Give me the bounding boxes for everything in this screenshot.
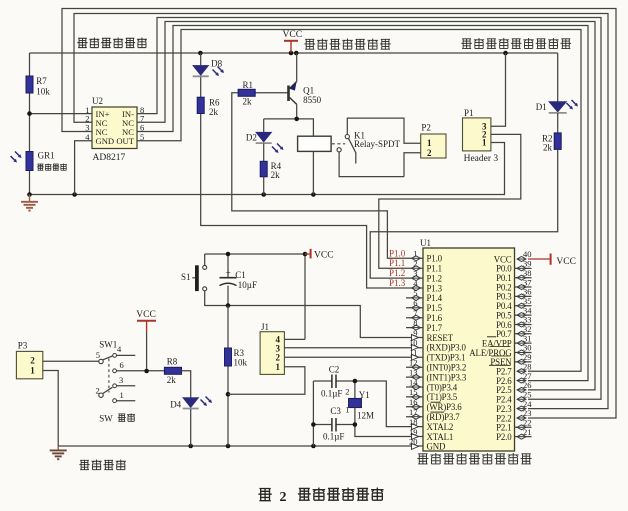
svg-text:VCC: VCC xyxy=(556,257,576,267)
svg-text:1: 1 xyxy=(120,390,124,400)
labels J1 pin numbers xyxy=(276,335,281,372)
junction VCC rail / D8 anode xyxy=(198,51,203,56)
svg-text:(TXD)P3.1: (TXD)P3.1 xyxy=(427,353,466,363)
svg-text:XTAL1: XTAL1 xyxy=(427,432,454,442)
wire K1 throw to P2 pin2 xyxy=(339,152,421,177)
transistor Q1 8550 xyxy=(289,82,297,105)
svg-text:3: 3 xyxy=(413,268,417,278)
led D4 xyxy=(183,397,212,409)
wire D1 feed from VCC rail xyxy=(557,53,559,102)
svg-text:1: 1 xyxy=(276,362,281,372)
wire P1 pin3 to VCC rail xyxy=(491,53,506,126)
svg-text:19: 19 xyxy=(409,427,418,437)
label D1 xyxy=(536,102,547,112)
svg-text:1: 1 xyxy=(413,249,417,259)
svg-text:P1.2: P1.2 xyxy=(427,273,442,283)
caption 图 2 整个系统电路 xyxy=(258,488,383,506)
svg-text:R1: R1 xyxy=(243,80,254,90)
wire SW1 throw 6 to R8 xyxy=(120,332,164,371)
label R2 2k xyxy=(542,134,553,153)
wire VCC node (S1/C1 top rail) xyxy=(205,254,305,339)
svg-text:34: 34 xyxy=(523,305,532,315)
svg-text:2: 2 xyxy=(280,490,287,505)
svg-text:28: 28 xyxy=(523,361,532,371)
power symbol VCC (power module) xyxy=(136,310,156,332)
label SW1 xyxy=(99,340,117,350)
mcu U1 body xyxy=(423,248,515,451)
svg-text:P3: P3 xyxy=(18,340,28,350)
wire D4 cathode to ground xyxy=(190,409,192,446)
wire net P2.7 (U2 pin5 OUT / bus) xyxy=(137,30,581,372)
wire D1 to R2 xyxy=(557,113,559,133)
svg-text:13: 13 xyxy=(409,367,418,377)
wire net P2.5 (U2 pin7 / bus) xyxy=(137,22,595,390)
junction VCC rail / Q1 emitter xyxy=(294,51,299,56)
label R4 2k xyxy=(271,161,282,180)
label D2 xyxy=(246,133,257,143)
relay K1 coil xyxy=(298,136,332,151)
junction Y1 bottom xyxy=(353,422,358,427)
svg-text:P1.3: P1.3 xyxy=(427,283,443,293)
label module 单片机最小系统电路 xyxy=(417,453,531,464)
wire P1 pin2 to P1.1 (net P1.1) xyxy=(379,134,521,268)
wire Q1 emitter to VCC xyxy=(296,53,298,82)
svg-text:32: 32 xyxy=(523,324,532,334)
svg-text:SW: SW xyxy=(99,413,113,423)
svg-text:27: 27 xyxy=(523,371,532,381)
svg-text:R6: R6 xyxy=(209,98,220,108)
svg-text:P1.5: P1.5 xyxy=(427,303,443,313)
labels U1 left pin numbers xyxy=(409,249,418,447)
junction VCC stem / R8 wire xyxy=(144,369,149,374)
svg-text:15: 15 xyxy=(409,387,418,397)
wire R4 to ground xyxy=(263,177,265,195)
svg-text:Header 3: Header 3 xyxy=(464,154,499,164)
svg-text:26: 26 xyxy=(523,380,532,390)
label R6 2k xyxy=(209,98,220,118)
svg-text:P1.0: P1.0 xyxy=(427,254,443,264)
svg-text:R7: R7 xyxy=(36,76,47,86)
svg-text:S1: S1 xyxy=(181,272,191,282)
label P1 xyxy=(464,108,474,118)
wire net P2.4 (U2 pin8 / bus) xyxy=(137,18,601,400)
svg-text:3: 3 xyxy=(119,375,123,385)
svg-text:10µF: 10µF xyxy=(238,280,257,290)
labels P3 pin numbers xyxy=(30,355,35,375)
junction ground rail / GR1 xyxy=(27,192,32,197)
junction VCC rail / P1 header pin 3 xyxy=(503,51,508,56)
wire R2 to P1.2 (net P1.2) xyxy=(370,149,558,278)
svg-text:10k: 10k xyxy=(234,358,248,368)
svg-text:6: 6 xyxy=(120,360,124,370)
resistor R7 xyxy=(26,76,33,93)
svg-text:23: 23 xyxy=(523,408,532,418)
svg-text:2: 2 xyxy=(30,355,35,365)
svg-text:16: 16 xyxy=(409,397,418,407)
label S1 xyxy=(181,272,191,282)
svg-text:2k: 2k xyxy=(167,375,177,385)
photoresistor GR1 xyxy=(11,152,34,171)
svg-text:38: 38 xyxy=(523,268,532,278)
svg-text:P1.2: P1.2 xyxy=(389,268,405,278)
switch S1 pushbutton xyxy=(192,265,207,291)
junction VCC tick xyxy=(303,252,308,257)
svg-text:+: + xyxy=(226,268,231,278)
junction bottom rail / D4 xyxy=(188,444,193,449)
label GR1 光敏电阻 xyxy=(37,164,67,171)
labels U2 pin names xyxy=(96,109,135,146)
svg-text:D4: D4 xyxy=(170,400,181,410)
junction C1 top xyxy=(226,252,231,257)
svg-text:10: 10 xyxy=(409,338,418,348)
svg-text:(RXD)P3.0: (RXD)P3.0 xyxy=(427,343,467,353)
labels U1 right pin numbers xyxy=(523,249,532,437)
svg-text:P1.3: P1.3 xyxy=(389,278,406,288)
svg-text:2k: 2k xyxy=(271,170,281,180)
op-amp U2 AD8217 body xyxy=(92,107,137,149)
label D4 xyxy=(170,400,181,410)
led D8 xyxy=(193,65,224,76)
wire D8/R6 to P1.3 (net P1.3) xyxy=(201,53,423,288)
label C2 0.1uF xyxy=(321,365,342,399)
svg-text:2k: 2k xyxy=(543,143,553,153)
label R8 2k xyxy=(167,357,178,385)
svg-text:8: 8 xyxy=(413,318,417,328)
wire XTAL2 net (C2/Y1 top) xyxy=(313,381,423,427)
svg-text:37: 37 xyxy=(523,277,532,287)
connector P2 xyxy=(421,134,446,158)
resistor R6 xyxy=(197,97,204,113)
label AD8217 xyxy=(93,153,126,163)
connector P3 xyxy=(16,351,42,378)
wire RESET net (S1/C1 bottom to MCU pin9) xyxy=(205,286,423,338)
svg-text:2k: 2k xyxy=(243,97,253,107)
svg-text:(WR)P3.6: (WR)P3.6 xyxy=(427,402,463,412)
svg-text:35: 35 xyxy=(523,296,532,306)
ground rail (photocell/relay modules) xyxy=(30,143,505,195)
wire relay coil to ground xyxy=(312,151,314,194)
svg-text:P1.0: P1.0 xyxy=(389,248,406,258)
svg-text:2: 2 xyxy=(413,259,417,269)
wire MCU pin40 to VCC xyxy=(528,258,550,260)
label GR1 xyxy=(38,151,55,161)
labels U2 pin numbers xyxy=(85,105,144,142)
svg-text:5: 5 xyxy=(140,132,144,142)
svg-text:2: 2 xyxy=(427,148,432,158)
label P2 xyxy=(421,122,431,132)
svg-text:P1.7: P1.7 xyxy=(427,323,443,333)
svg-text:VCC: VCC xyxy=(314,250,334,260)
label module 光敏电路模块 xyxy=(77,38,147,48)
junction C3 left xyxy=(311,422,316,427)
junction bottom rail / C2C3 xyxy=(311,444,316,449)
svg-text:33: 33 xyxy=(523,315,532,325)
svg-text:SW1: SW1 xyxy=(99,340,117,350)
svg-text:(T1)P3.5: (T1)P3.5 xyxy=(427,392,458,402)
led D1 xyxy=(549,100,578,113)
svg-text:U1: U1 xyxy=(420,238,431,248)
svg-text:1: 1 xyxy=(482,138,487,148)
junction VCC rail / VCC symbol xyxy=(289,51,294,56)
svg-text:8550: 8550 xyxy=(303,95,322,105)
label J1 xyxy=(261,322,269,332)
resistor R2 xyxy=(554,133,561,150)
wire J1 pin1 to R3 node xyxy=(228,367,305,394)
svg-text:14: 14 xyxy=(409,377,418,387)
junction J1 pin1 / R3 xyxy=(226,392,231,397)
resistor R8 xyxy=(164,367,181,374)
mcu U1 right pin stubs and arrows xyxy=(515,257,532,440)
ground rail (bottom / MCU GND) xyxy=(58,445,423,447)
svg-text:11: 11 xyxy=(409,348,417,358)
wire P3 pin2 to SW1 pole xyxy=(43,360,99,362)
svg-text:D1: D1 xyxy=(536,102,547,112)
svg-text:40: 40 xyxy=(523,249,532,259)
svg-text:Q1: Q1 xyxy=(303,86,314,96)
power ground symbol (power module) xyxy=(50,446,67,459)
svg-text:D8: D8 xyxy=(211,59,222,69)
power symbol VCC (MCU) xyxy=(551,254,576,268)
svg-text:C1: C1 xyxy=(235,270,246,280)
svg-text:31: 31 xyxy=(523,333,532,343)
svg-text:P2: P2 xyxy=(421,122,431,132)
svg-text:C3: C3 xyxy=(330,406,341,416)
svg-text:U2: U2 xyxy=(92,96,103,106)
wire VCC rail (top, photocell + relay + PIR modules) xyxy=(30,52,558,54)
labels SW1 pin numbers xyxy=(96,344,124,400)
svg-text:7: 7 xyxy=(413,308,417,318)
svg-text:2k: 2k xyxy=(209,107,219,117)
capacitor C3 xyxy=(332,418,336,432)
label R7 10k xyxy=(36,76,50,97)
label R1 2k xyxy=(243,80,254,107)
svg-text:39: 39 xyxy=(523,259,532,269)
svg-text:18: 18 xyxy=(409,417,418,427)
label module 电源电路 xyxy=(79,460,126,470)
power ground symbol (photocell module) xyxy=(21,195,38,211)
svg-text:P1.4: P1.4 xyxy=(427,293,443,303)
capacitor C1 xyxy=(220,268,237,285)
capacitor C2 xyxy=(332,375,336,389)
svg-text:P1.6: P1.6 xyxy=(427,313,443,323)
label SW 灰色 xyxy=(99,413,135,423)
junction R3 top xyxy=(226,303,231,308)
svg-text:36: 36 xyxy=(523,287,532,297)
label K1 Relay-SPDT xyxy=(354,131,401,150)
svg-text:GND: GND xyxy=(96,136,115,146)
switch SW1 xyxy=(99,354,136,403)
label Header 3 xyxy=(464,154,499,164)
label Y1 12M xyxy=(345,387,374,421)
wire XTAL1 net (Y1 bottom) xyxy=(355,408,423,437)
wire J1 pin2 to MCU TXD xyxy=(284,356,423,358)
svg-text:AD8217: AD8217 xyxy=(93,153,126,163)
led D2 xyxy=(256,132,284,153)
svg-text:17: 17 xyxy=(409,407,418,417)
wire K1 common to P2 pin1 xyxy=(347,118,420,143)
junction Y1 top xyxy=(353,379,358,384)
svg-text:24: 24 xyxy=(523,399,532,409)
wire D2 anode xyxy=(263,119,265,132)
svg-text:1: 1 xyxy=(30,366,35,376)
svg-text:GND: GND xyxy=(427,442,447,452)
svg-text:P1: P1 xyxy=(464,108,474,118)
svg-text:6: 6 xyxy=(413,298,417,308)
svg-text:12M: 12M xyxy=(357,411,374,421)
wire J1 pin3 to MCU RXD xyxy=(284,347,423,349)
junction Q1 collector xyxy=(294,117,299,122)
mcu U1 left pin stubs and arrows xyxy=(406,256,423,450)
svg-text:20: 20 xyxy=(409,437,418,447)
resistor R3 xyxy=(225,348,232,366)
svg-text:1: 1 xyxy=(427,138,432,148)
wire R8 to D4 xyxy=(182,371,191,398)
svg-text:(INT0)P3.2: (INT0)P3.2 xyxy=(427,363,467,373)
svg-text:(INT1)P3.3: (INT1)P3.3 xyxy=(427,372,467,382)
svg-text:(RD)P3.7: (RD)P3.7 xyxy=(427,412,461,422)
svg-text:9: 9 xyxy=(413,328,417,338)
svg-text:5: 5 xyxy=(96,350,100,360)
labels P1 pin numbers xyxy=(482,121,487,147)
svg-text:2: 2 xyxy=(96,385,100,395)
label Q1 8550 xyxy=(303,86,322,106)
wire P3 pin1 to ground rail xyxy=(43,371,58,447)
svg-text:P1.1: P1.1 xyxy=(427,264,442,274)
junction ground rail / R4 xyxy=(261,192,266,197)
svg-text:C2: C2 xyxy=(329,365,340,375)
wire R7/GR1 divider to U2 pin1 IN+ xyxy=(30,53,93,195)
wire U2 pin4 GND xyxy=(75,141,92,195)
wire net P2.2 (U2 pin3 / bus outer) xyxy=(62,9,616,419)
svg-text:30: 30 xyxy=(523,343,532,353)
crystal Y1 xyxy=(349,399,362,408)
svg-text:P2.0: P2.0 xyxy=(496,432,512,442)
svg-text:22: 22 xyxy=(523,418,532,428)
svg-text:10k: 10k xyxy=(36,87,50,97)
power symbol VCC (relay module) xyxy=(283,30,303,53)
wire D2 to R4 xyxy=(263,144,265,162)
svg-text:0.1µF: 0.1µF xyxy=(321,389,342,399)
svg-text:2: 2 xyxy=(345,387,349,397)
svg-text:Y1: Y1 xyxy=(359,390,370,400)
label C3 0.1uF xyxy=(323,406,344,442)
svg-text:21: 21 xyxy=(523,427,532,437)
labels net P1.0-P1.3 (red) xyxy=(389,248,406,288)
relay K1 contacts xyxy=(332,135,356,164)
wire GND leg (C2/C3 left + bottom) xyxy=(313,381,355,446)
labels U1 left pin names xyxy=(427,254,467,452)
junction ground rail / relay coil xyxy=(311,192,316,197)
svg-text:R3: R3 xyxy=(234,348,245,358)
svg-text:5: 5 xyxy=(413,288,417,298)
junction divider node xyxy=(27,111,32,116)
svg-text:29: 29 xyxy=(523,352,532,362)
resistor R1 xyxy=(238,89,255,96)
svg-text:Relay-SPDT: Relay-SPDT xyxy=(354,139,401,149)
svg-text:J1: J1 xyxy=(261,322,269,332)
label D8 xyxy=(211,59,222,69)
svg-text:VCC: VCC xyxy=(283,30,303,40)
svg-text:GR1: GR1 xyxy=(38,151,55,161)
label module 继电器控制模块 xyxy=(304,39,390,50)
svg-text:P1.1: P1.1 xyxy=(389,258,405,268)
labels P2 pin numbers xyxy=(427,138,432,158)
labels U1 right pin names xyxy=(469,254,512,442)
connector P1 Header 3 xyxy=(463,118,491,151)
wire R1 to P1.0 (net P1.0) xyxy=(232,93,423,258)
power symbol VCC (C1 rail) xyxy=(305,249,334,261)
svg-text:1: 1 xyxy=(345,405,349,415)
label C1 10uF xyxy=(235,270,257,290)
label U1 xyxy=(420,238,431,248)
svg-text:25: 25 xyxy=(523,389,532,399)
wire Q1 collector node xyxy=(264,104,314,136)
svg-text:VCC: VCC xyxy=(136,310,156,320)
connector J1 xyxy=(260,332,284,375)
svg-text:D2: D2 xyxy=(246,133,257,143)
label P3 xyxy=(18,340,28,350)
svg-text:XTAL2: XTAL2 xyxy=(427,422,454,432)
wire net P2.6 (U2 pin6 / bus) xyxy=(137,26,588,381)
svg-text:RESET: RESET xyxy=(427,333,454,343)
svg-text:0.1µF: 0.1µF xyxy=(323,432,344,442)
label module 红外热释电人体感应 xyxy=(461,38,571,49)
svg-text:12: 12 xyxy=(409,358,418,368)
label R3 10k xyxy=(234,348,248,368)
svg-text:R8: R8 xyxy=(167,357,178,367)
svg-text:OUT: OUT xyxy=(116,136,134,146)
label U2 xyxy=(92,96,103,106)
junction ground rail / U2 GND xyxy=(72,192,77,197)
svg-text:(T0)P3.4: (T0)P3.4 xyxy=(427,382,458,392)
junction bottom rail / R3 xyxy=(226,444,231,449)
wire net P2.3 (U2 pin2 / bus) xyxy=(74,14,608,409)
resistor R4 xyxy=(260,161,267,177)
wire R3 to bottom rail xyxy=(227,306,229,447)
